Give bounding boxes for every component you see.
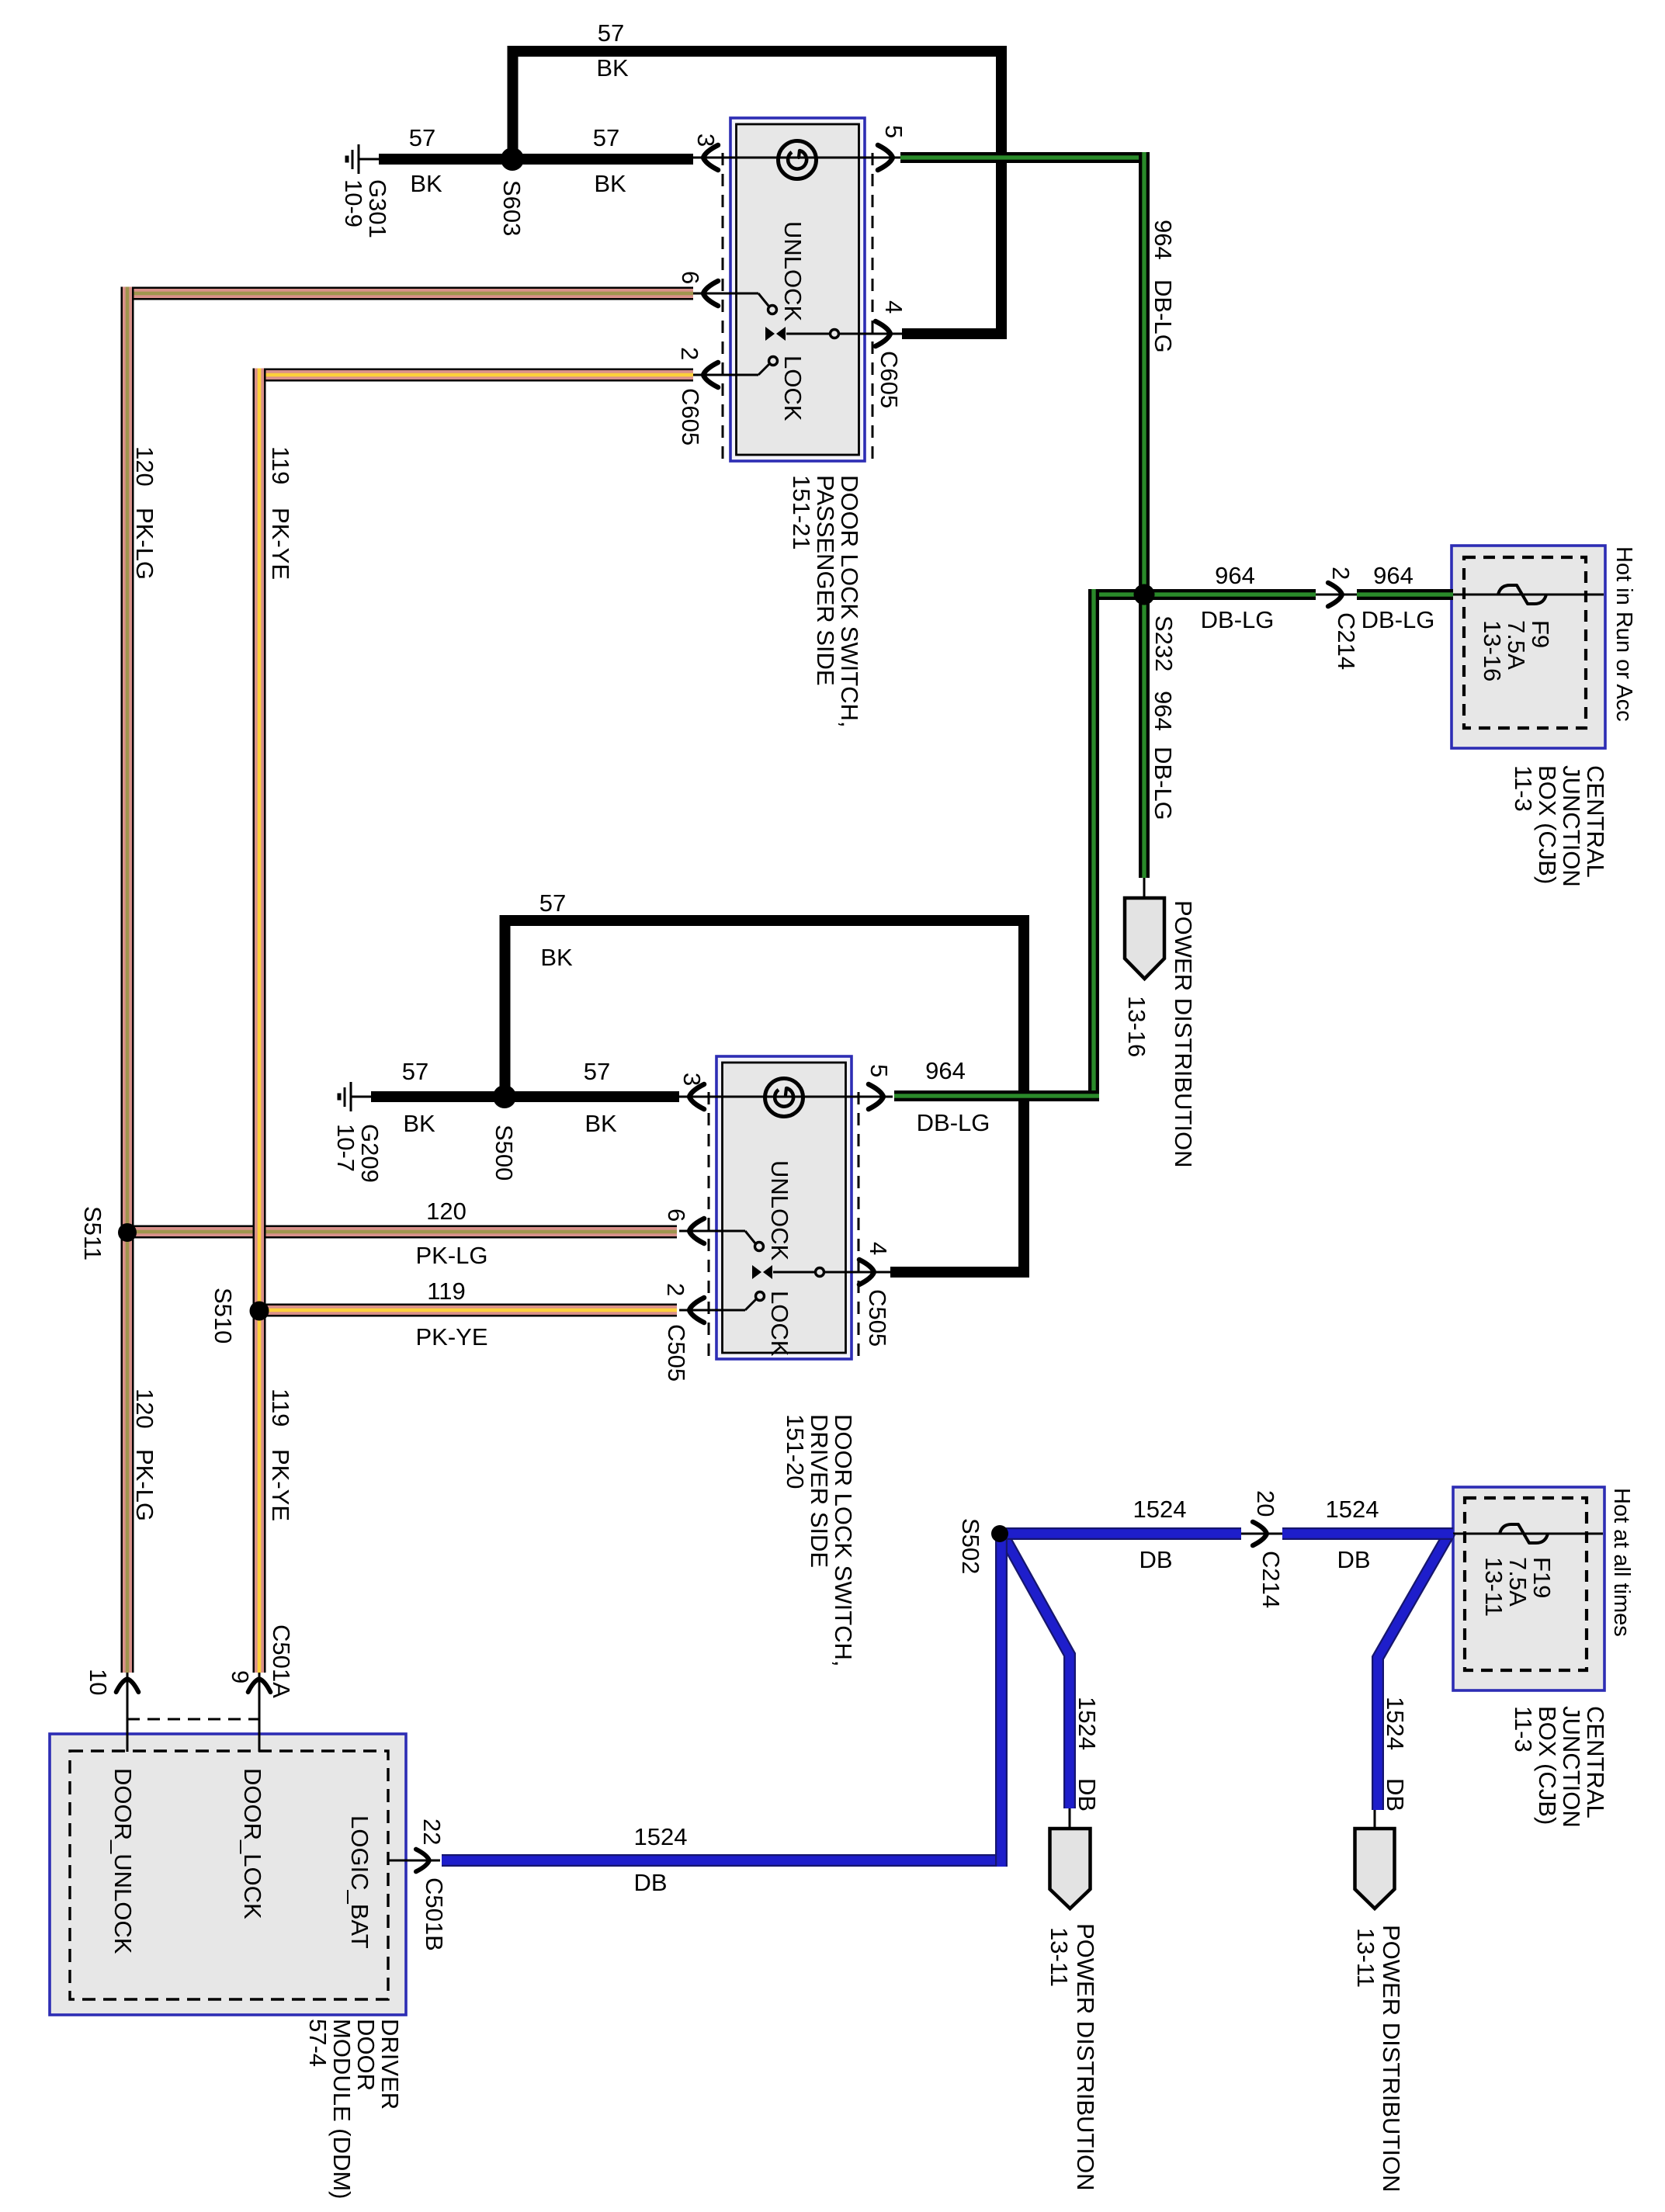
wire 964 DB-LG passenger pin 5 to right turn xyxy=(900,152,1150,163)
svg-text:C505: C505 xyxy=(663,1324,690,1382)
C214 connector line in 1524 circuit xyxy=(1241,1533,1282,1535)
driver switch pin 4 common contact line xyxy=(773,1271,893,1274)
wire 57 BK driver loop - into pin 4 xyxy=(890,1267,1029,1278)
passenger pin 4 connector arrow xyxy=(876,321,890,346)
svg-text:DB-LG: DB-LG xyxy=(1361,606,1435,633)
svg-text:119: 119 xyxy=(267,446,294,484)
svg-text:DB-LG: DB-LG xyxy=(917,1109,990,1136)
svg-text:LOCK: LOCK xyxy=(779,355,806,421)
power distribution 13-16 lead line xyxy=(1143,878,1146,899)
svg-text:20: 20 xyxy=(1252,1490,1279,1517)
wire 964 DB-LG into driver switch pin 5 xyxy=(894,1090,1099,1101)
svg-text:1524: 1524 xyxy=(1326,1496,1379,1523)
svg-text:S603: S603 xyxy=(498,180,526,236)
wire 57 BK passenger loop - into pin 4 xyxy=(902,328,1007,339)
svg-text:DRIVERDOORMODULE (DDM)57-4: DRIVERDOORMODULE (DDM)57-4 xyxy=(304,2019,404,2200)
svg-text:G20910-7: G20910-7 xyxy=(332,1124,383,1183)
driver pin 3 connector arrow xyxy=(689,1084,704,1109)
power distribution arrow 13-11 right xyxy=(1355,1829,1395,1909)
svg-text:9: 9 xyxy=(227,1670,254,1683)
svg-text:C501B: C501B xyxy=(421,1877,448,1951)
svg-text:120: 120 xyxy=(131,446,158,487)
power distribution 13-11 right lead line xyxy=(1374,1810,1376,1829)
svg-text:120: 120 xyxy=(131,1389,158,1429)
passenger pin 2 connector arrow xyxy=(703,362,718,387)
svg-text:120: 120 xyxy=(426,1198,467,1225)
svg-text:BK: BK xyxy=(403,1110,435,1137)
svg-text:1524: 1524 xyxy=(1382,1697,1409,1750)
central junction box CJB (F19) box xyxy=(1453,1487,1604,1690)
passenger switch pin 3 to pin 5 internal line with lamp xyxy=(693,157,900,159)
DDM pin 9 lead line xyxy=(258,1673,261,1752)
CJB F9 inner dashed boundary xyxy=(1464,557,1586,728)
power distribution arrow 13-16 xyxy=(1125,898,1164,979)
driver pin 2 connector arrow xyxy=(689,1298,704,1323)
svg-text:S510: S510 xyxy=(210,1288,237,1343)
passenger common contact bowtie xyxy=(765,327,775,341)
driver unlock contact circle xyxy=(755,1243,764,1251)
svg-text:PK-LG: PK-LG xyxy=(415,1242,487,1269)
svg-text:964: 964 xyxy=(1150,220,1177,260)
svg-text:6: 6 xyxy=(663,1208,690,1222)
svg-text:1524: 1524 xyxy=(634,1823,688,1850)
svg-text:DB-LG: DB-LG xyxy=(1150,747,1177,820)
svg-text:57: 57 xyxy=(409,124,435,151)
wire 964 DB-LG splice S232 to connector C214 xyxy=(1144,589,1316,600)
fuse F9 element and through line xyxy=(1452,594,1604,596)
passenger switch indicator lamp xyxy=(779,141,817,179)
svg-text:POWER DISTRIBUTION: POWER DISTRIBUTION xyxy=(1072,1923,1099,2190)
connector C505 dashed line right of driver switch xyxy=(858,1092,860,1359)
DDM pin 10 lead line xyxy=(127,1673,129,1752)
svg-text:DOOR_LOCK: DOOR_LOCK xyxy=(239,1768,266,1919)
wire 964 DB-LG S232 left branch xyxy=(1088,589,1144,600)
wire 1524 DB diagonal branch from S502 to left power distribution xyxy=(1001,1532,1070,1808)
wire 120 PK-LG splice S511 branch to driver pin 6 xyxy=(127,1226,677,1239)
ground G301 xyxy=(358,144,360,174)
CJB F19 inner dashed boundary xyxy=(1465,1498,1587,1670)
svg-text:4: 4 xyxy=(865,1242,892,1255)
driver pin 4 connector arrow xyxy=(859,1260,874,1285)
splice S500 xyxy=(493,1085,516,1108)
svg-text:BK: BK xyxy=(540,944,573,971)
svg-text:3: 3 xyxy=(678,1073,706,1086)
ground G209 xyxy=(350,1082,352,1111)
passenger lock contact circle xyxy=(769,357,778,366)
passenger pin 6 connector arrow xyxy=(703,281,718,306)
svg-text:BK: BK xyxy=(596,54,629,81)
DDM pin 10 connector arrow xyxy=(116,1679,139,1692)
svg-text:964: 964 xyxy=(925,1057,966,1084)
svg-text:POWER DISTRIBUTION: POWER DISTRIBUTION xyxy=(1378,1925,1405,2192)
svg-text:S502: S502 xyxy=(957,1518,984,1574)
wire 57 BK splice S603 to passenger switch pin 3 xyxy=(509,154,693,165)
svg-text:57: 57 xyxy=(598,19,624,47)
wire 57 BK driver loop - top horizontal xyxy=(500,915,1030,926)
wire 57 BK splice S500 to driver switch pin 3 xyxy=(501,1091,679,1102)
svg-text:22: 22 xyxy=(418,1818,446,1845)
wire 964 DB-LG branch vertical down to driver pin 5 row xyxy=(1088,589,1099,1101)
DDM pin 9 connector arrow xyxy=(248,1679,271,1692)
connector C501A dashed line at DDM top xyxy=(127,1718,259,1721)
svg-text:57: 57 xyxy=(402,1058,428,1085)
svg-text:BK: BK xyxy=(410,170,442,197)
svg-text:CENTRALJUNCTIONBOX (CJB)11-3: CENTRALJUNCTIONBOX (CJB)11-3 xyxy=(1510,1706,1609,1828)
wire 57 BK passenger loop - right vertical down to pin 4 xyxy=(996,46,1007,339)
wire 964 DB-LG below S232 to power distribution xyxy=(1139,595,1150,878)
wire 57 BK ground G209 to splice S500 xyxy=(351,1096,373,1098)
svg-text:C505: C505 xyxy=(864,1289,891,1347)
svg-text:PK-LG: PK-LG xyxy=(131,1449,158,1521)
door lock switch driver side - component box xyxy=(716,1056,852,1359)
driver common contact bowtie xyxy=(752,1265,761,1279)
passenger pin4 line contact circle xyxy=(831,330,839,338)
wire 57 BK passenger loop - top horizontal xyxy=(508,46,1008,57)
svg-text:4: 4 xyxy=(880,300,907,314)
wire 964 DB-LG vertical down to splice S232 xyxy=(1139,152,1150,595)
svg-text:1524: 1524 xyxy=(1074,1697,1101,1750)
svg-text:964: 964 xyxy=(1150,691,1177,731)
wire 119 PK-YE passenger pin 2 horizontal xyxy=(253,369,694,382)
svg-text:5: 5 xyxy=(865,1064,893,1077)
svg-text:964: 964 xyxy=(1373,562,1414,589)
driver switch pin 6 unlock contact line xyxy=(679,1230,745,1233)
wire 1524 DB from DDM pin 22 to corner xyxy=(442,1854,1007,1867)
svg-text:5: 5 xyxy=(880,125,907,138)
driver switch pin 3 to pin 5 internal line with lamp xyxy=(679,1096,893,1098)
svg-text:DB-LG: DB-LG xyxy=(1201,606,1275,633)
svg-text:PK-LG: PK-LG xyxy=(131,508,158,580)
svg-text:UNLOCK: UNLOCK xyxy=(766,1160,793,1261)
svg-text:DOOR LOCK SWITCH,DRIVER SIDE15: DOOR LOCK SWITCH,DRIVER SIDE151-20 xyxy=(782,1414,857,1667)
splice S510 xyxy=(250,1302,269,1321)
svg-text:2: 2 xyxy=(676,347,703,360)
wire 57 BK passenger loop - vertical from S603 up xyxy=(508,46,519,159)
power distribution arrow 13-11 left xyxy=(1050,1829,1091,1909)
svg-text:57: 57 xyxy=(539,889,566,917)
svg-text:964: 964 xyxy=(1215,562,1255,589)
svg-text:3: 3 xyxy=(692,133,720,147)
svg-text:DB: DB xyxy=(633,1869,667,1896)
connector C214 arrow 1524 circuit xyxy=(1253,1522,1267,1545)
svg-text:DB-LG: DB-LG xyxy=(1150,279,1177,353)
fuse F19 element and through line xyxy=(1453,1533,1603,1535)
passenger switch pin 6 unlock contact line xyxy=(693,293,758,295)
svg-text:PK-YE: PK-YE xyxy=(267,508,294,580)
svg-text:S500: S500 xyxy=(491,1125,518,1181)
wire 1524 DB splice S502 to connector C214 xyxy=(1001,1527,1241,1540)
svg-text:C214: C214 xyxy=(1257,1551,1285,1608)
wire 57 BK ground G301 to splice S603 xyxy=(359,158,380,161)
driver pin4 line contact circle xyxy=(816,1268,824,1277)
splice S603 xyxy=(501,147,524,171)
svg-text:PK-YE: PK-YE xyxy=(267,1449,294,1521)
svg-text:S511: S511 xyxy=(79,1206,106,1260)
connector C214 arrow 964 circuit xyxy=(1328,583,1342,606)
svg-text:119: 119 xyxy=(267,1389,294,1427)
svg-text:1524: 1524 xyxy=(1133,1496,1187,1523)
svg-text:C501A: C501A xyxy=(268,1624,295,1698)
driver pin 6 connector arrow xyxy=(689,1219,704,1243)
svg-text:DB: DB xyxy=(1382,1778,1409,1812)
DDM pin 22 lead line xyxy=(388,1860,440,1862)
svg-text:LOGIC_BAT: LOGIC_BAT xyxy=(346,1815,373,1949)
DDM inner dashed boundary xyxy=(70,1751,388,1999)
wire 119 PK-YE splice S510 branch to driver pin 2 xyxy=(259,1304,677,1317)
door lock switch passenger side - component box xyxy=(730,118,865,461)
driver lock contact circle xyxy=(756,1292,765,1301)
svg-text:BK: BK xyxy=(584,1110,617,1137)
svg-text:PK-YE: PK-YE xyxy=(415,1323,487,1350)
splice S511 xyxy=(118,1223,137,1242)
svg-text:57: 57 xyxy=(584,1058,610,1085)
svg-text:C605: C605 xyxy=(876,351,903,408)
svg-text:10: 10 xyxy=(85,1669,112,1695)
connector C605 dashed line right of passenger switch xyxy=(872,153,874,461)
svg-text:DOOR LOCK SWITCH,PASSENGER SID: DOOR LOCK SWITCH,PASSENGER SIDE151-21 xyxy=(788,475,863,728)
wire 1524 DB vertical up to splice S502 xyxy=(995,1528,1008,1867)
wire 119 PK-YE left vertical run xyxy=(253,369,266,1673)
wire 57 BK driver loop - right vertical down to pin 4 xyxy=(1018,915,1029,1278)
driver switch indicator lamp xyxy=(765,1079,803,1117)
wire 120 PK-LG passenger pin 6 horizontal xyxy=(121,287,694,300)
wire 120 PK-LG left vertical run xyxy=(121,287,134,1673)
svg-text:BK: BK xyxy=(594,170,626,197)
svg-text:13-16: 13-16 xyxy=(1123,996,1150,1057)
svg-text:119: 119 xyxy=(427,1278,465,1305)
wire 964 DB-LG connector C214 to CJB F9 xyxy=(1357,589,1453,600)
driver switch pin 2 lock contact line xyxy=(679,1309,745,1312)
svg-text:13-11: 13-11 xyxy=(1352,1928,1379,1988)
connector C505 dashed line left of driver switch xyxy=(708,1092,710,1359)
driver pin 5 connector arrow xyxy=(869,1084,883,1109)
svg-text:UNLOCK: UNLOCK xyxy=(779,221,806,322)
passenger pin 5 connector arrow xyxy=(878,145,893,170)
svg-text:DB: DB xyxy=(1074,1778,1101,1812)
svg-text:DB: DB xyxy=(1337,1546,1370,1573)
passenger switch pin 4 common contact line xyxy=(786,333,904,335)
driver door module DDM box xyxy=(50,1734,406,2015)
svg-text:C214: C214 xyxy=(1333,612,1360,670)
svg-text:POWER DISTRIBUTION: POWER DISTRIBUTION xyxy=(1170,900,1197,1167)
svg-text:CENTRALJUNCTIONBOX (CJB)11-3: CENTRALJUNCTIONBOX (CJB)11-3 xyxy=(1510,765,1609,887)
wire 1524 DB diagonal branch from CJB to right power distribution xyxy=(1378,1532,1450,1810)
power distribution 13-11 left lead line xyxy=(1069,1808,1071,1829)
svg-text:DB: DB xyxy=(1139,1546,1172,1573)
svg-text:C605: C605 xyxy=(677,388,704,446)
svg-text:Hot in Run or Acc: Hot in Run or Acc xyxy=(1611,546,1636,722)
DDM pin 22 connector arrow xyxy=(416,1850,429,1872)
svg-text:LOCK: LOCK xyxy=(766,1291,793,1357)
passenger switch pin 2 lock contact line xyxy=(693,374,758,376)
connector C605 dashed line left of passenger switch xyxy=(722,153,724,461)
wire 1524 DB connector C214 to CJB F19 xyxy=(1282,1527,1453,1540)
passenger unlock contact circle xyxy=(768,306,777,314)
splice S502 xyxy=(991,1525,1008,1542)
svg-text:13-11: 13-11 xyxy=(1046,1927,1073,1987)
svg-text:2: 2 xyxy=(662,1283,689,1296)
splice S232 xyxy=(1134,584,1155,605)
svg-text:2: 2 xyxy=(1327,567,1355,580)
central junction box CJB (F9) box xyxy=(1452,546,1605,748)
svg-text:G30110-9: G30110-9 xyxy=(340,179,391,238)
svg-text:Hot at all times: Hot at all times xyxy=(1609,1488,1634,1637)
svg-text:DOOR_UNLOCK: DOOR_UNLOCK xyxy=(109,1768,137,1954)
wire 57 BK driver loop - vertical from S500 up xyxy=(500,915,511,1097)
passenger pin 3 connector arrow xyxy=(703,145,718,170)
C214 connector line in 964 circuit xyxy=(1316,594,1357,596)
svg-text:57: 57 xyxy=(593,124,619,151)
svg-text:S232: S232 xyxy=(1150,615,1178,671)
svg-text:6: 6 xyxy=(677,271,704,284)
